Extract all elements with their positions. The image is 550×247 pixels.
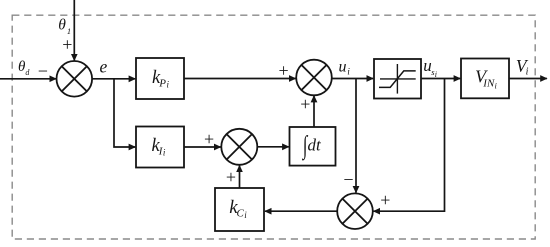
block integrator: [290, 127, 336, 166]
block kP: [136, 58, 184, 99]
wire output V_i: [509, 78, 547, 80]
svg-text:+: +: [62, 34, 72, 54]
wire saturation to V_IN block: [421, 78, 460, 80]
wire kC up to S3: [239, 166, 241, 188]
wire kP to summing junction S2: [184, 78, 296, 80]
wire e to kP: [92, 78, 135, 80]
svg-text:e: e: [100, 56, 108, 76]
svg-text:−: −: [343, 169, 353, 189]
node integrator label: [301, 131, 322, 161]
wire integrator up to S2: [313, 96, 315, 127]
block kI: [136, 127, 184, 168]
wire input theta_d: [0, 78, 56, 80]
svg-text:+: +: [279, 60, 289, 80]
svg-text:+: +: [226, 167, 236, 187]
summing junction S4: [337, 193, 373, 229]
wire kI to summing junction S3: [184, 146, 221, 148]
wire u_i branch down to summing junction S4: [355, 79, 357, 193]
wire u_si branch down and left to S4: [374, 79, 445, 212]
svg-text:+: +: [204, 129, 214, 149]
wire e branch down to kI: [114, 79, 135, 147]
wire S2 to saturation block: [332, 78, 373, 80]
summing junction S2: [296, 60, 332, 96]
block kC: [215, 188, 264, 231]
wire input theta_1: [73, 0, 75, 60]
svg-text:−: −: [38, 61, 48, 81]
summing junction S3: [221, 129, 257, 165]
block saturation limiter: [374, 59, 421, 99]
svg-text:+: +: [300, 94, 310, 114]
svg-text:+: +: [380, 190, 390, 210]
block V_IN: [461, 59, 509, 99]
svg-text:dt: dt: [308, 135, 323, 154]
wire S3 to integrator: [257, 146, 288, 148]
summing junction S1: [57, 61, 93, 97]
wire S4 to kC: [265, 210, 337, 212]
